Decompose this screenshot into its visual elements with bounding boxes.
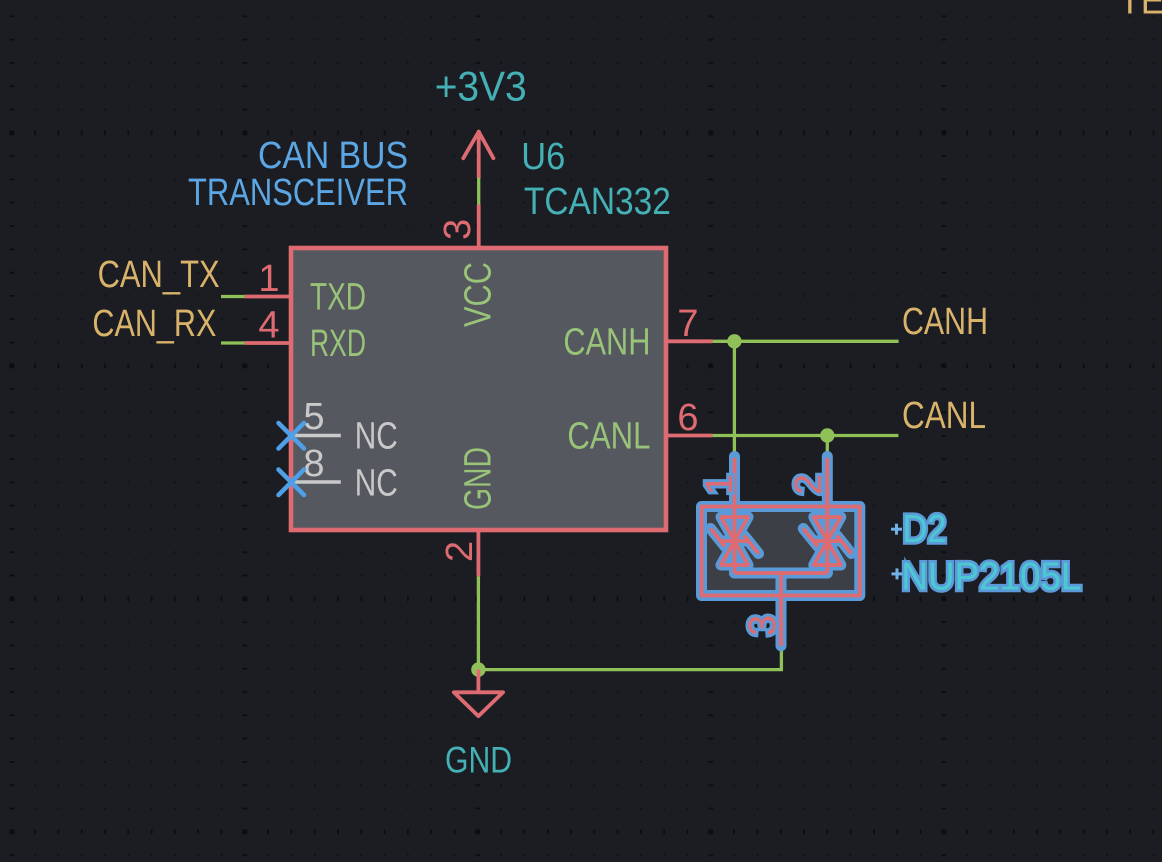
svg-text:CANH: CANH [563,322,650,364]
pin 6 CANL [666,434,712,438]
svg-text:2: 2 [439,541,481,562]
svg-text:6: 6 [677,397,698,439]
svg-text:2: 2 [788,474,830,495]
svg-text:1: 1 [258,258,279,300]
wire CAN_RX [221,341,245,344]
junction CANH [727,334,741,348]
diode D2 selection glow [702,457,860,646]
pin 3 VCC [477,205,481,249]
svg-text:8: 8 [303,443,324,485]
svg-text:4: 4 [258,305,279,347]
D2 value anchor cross [892,568,903,579]
pin 1 TXD [245,295,291,299]
D2 pin number 2 [788,474,830,495]
text CAN BUS TRANSCEIVER [188,135,408,214]
svg-text:3: 3 [437,219,479,240]
wire CANH to D2 pin1 [733,341,736,458]
svg-text:5: 5 [303,396,324,438]
junction GND [471,662,485,676]
svg-text:VCC: VCC [458,262,500,327]
svg-text:3: 3 [742,615,784,636]
svg-text:NC: NC [355,463,398,505]
power symbol +3V3 [463,132,493,178]
svg-text:CAN BUS: CAN BUS [258,135,408,177]
svg-text:RXD: RXD [310,323,366,365]
D2 pin number 3 [742,615,784,636]
junction CANL [820,428,834,442]
diode D2 red strokes [702,458,860,646]
svg-text:CANH: CANH [902,301,988,343]
svg-text:TERMINA: TERMINA [1119,0,1162,23]
svg-text:TXD: TXD [310,277,366,319]
svg-text:CAN_TX: CAN_TX [98,254,220,296]
D2 anchor cross [891,524,902,535]
pin 5 NC [291,434,341,438]
diode D2 body fill [702,507,860,596]
svg-text:TCAN332: TCAN332 [524,181,671,223]
svg-text:NC: NC [355,416,398,458]
svg-text:U6: U6 [521,136,565,178]
wire CAN_TX [221,295,245,298]
svg-text:CAN_RX: CAN_RX [92,303,216,345]
D2 pin 3 tip to wire [779,600,783,646]
svg-text:CANL: CANL [902,395,986,437]
svg-text:TRANSCEIVER: TRANSCEIVER [188,172,408,214]
D2 pin number 1 [699,474,741,495]
wire VCC (pin3 to +3V3) [477,178,480,205]
power symbol GND [454,670,503,717]
pin 7 CANH [666,339,712,343]
svg-text:NUP2105L: NUP2105L [901,556,1081,599]
no-connect X pin 5 [279,423,305,449]
svg-text:+3V3: +3V3 [435,62,527,109]
svg-text:GND: GND [445,740,512,781]
svg-text:CANL: CANL [567,416,650,458]
pin 2 GND [476,530,480,576]
wire CANL [712,434,898,437]
svg-text:D2: D2 [903,508,947,551]
pin 4 RXD [245,341,291,345]
pin 8 NC [291,480,341,484]
wire GND horizontal to D2 pin3 [478,647,781,670]
IC U6 body [291,248,666,530]
svg-text:7: 7 [677,303,698,345]
svg-text:GND: GND [458,447,500,510]
wire GND net [477,576,480,669]
wire CANH [712,340,898,343]
svg-text:1: 1 [699,474,741,495]
wire CANL to D2 pin2 [826,436,829,458]
no-connect X pin 8 [279,470,305,496]
